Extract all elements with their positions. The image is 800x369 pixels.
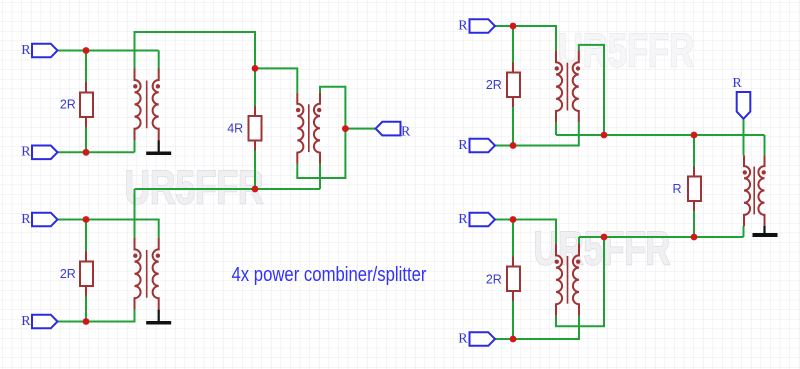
wire T1 left winding bottom rise bbox=[134, 140, 136, 152]
wire port5 to T4 left winding top bbox=[495, 26, 556, 50]
wire node A1 to T3 left winding top bbox=[255, 68, 297, 92]
wire top bus bbox=[556, 134, 765, 136]
wire R5 bottom to node bbox=[512, 301, 514, 339]
svg-text:R: R bbox=[732, 76, 742, 91]
transformer T6 bbox=[556, 244, 579, 316]
port P10 R bbox=[737, 92, 751, 119]
junction bbox=[83, 149, 90, 156]
svg-text:R: R bbox=[21, 145, 31, 160]
svg-text:R: R bbox=[458, 212, 468, 227]
svg-text:R: R bbox=[21, 212, 31, 227]
svg-text:R: R bbox=[401, 124, 411, 139]
junction bbox=[510, 23, 517, 30]
wire bottom bus to T5 left winding bottom bbox=[743, 226, 745, 237]
wire T4 left winding bottom drop bbox=[555, 122, 557, 135]
ground T5 bbox=[753, 226, 778, 237]
junction A1 bbox=[252, 65, 259, 72]
svg-text:2R: 2R bbox=[60, 98, 76, 112]
resistor R1 pins bbox=[85, 82, 87, 128]
transformer T1 bbox=[135, 69, 159, 141]
ground T2 bbox=[146, 310, 171, 325]
resistor R5 body 2R bbox=[507, 267, 520, 292]
resistor R2 pins bbox=[85, 251, 87, 297]
wire T1 right winding top drop bbox=[158, 51, 160, 69]
port P2 R bbox=[32, 146, 58, 160]
svg-text:2R: 2R bbox=[486, 78, 502, 92]
junction A2 bbox=[252, 186, 259, 193]
wire bottom bus to T6 right winding top bbox=[578, 237, 580, 244]
wire port8 to T6 right winding bottom bbox=[495, 316, 579, 339]
wire node C1 to T6 left winding bottom bbox=[556, 237, 604, 326]
wire port10 to T5 left winding top bbox=[743, 119, 745, 156]
resistor R5 pins bbox=[512, 257, 514, 302]
wire node to R2 top bbox=[85, 220, 87, 252]
port P8 R bbox=[470, 213, 496, 227]
wire R6 bottom to node bbox=[693, 211, 695, 237]
svg-text:2R: 2R bbox=[60, 267, 76, 281]
port P1 R bbox=[32, 44, 58, 58]
wire node J3 to output port bbox=[345, 128, 376, 130]
junction bbox=[83, 318, 90, 325]
wire port4 to T2 left winding bottom bbox=[58, 310, 135, 322]
resistor R6 body R bbox=[688, 177, 701, 202]
svg-text:4R: 4R bbox=[227, 122, 243, 136]
transformer T5 bbox=[744, 155, 765, 226]
svg-text:UR5FFR: UR5FFR bbox=[534, 222, 671, 275]
svg-text:R: R bbox=[458, 18, 468, 33]
wire R1 bottom to node bbox=[85, 128, 87, 153]
wire port6 to T4 right winding bottom bbox=[495, 122, 579, 145]
svg-text:R: R bbox=[21, 314, 31, 329]
transformer T2 bbox=[135, 238, 159, 310]
resistor R6 pins bbox=[693, 167, 695, 212]
wire node J3 to T3 left winding bottom bbox=[297, 129, 345, 178]
junction bbox=[83, 216, 90, 223]
transformer T3 bbox=[297, 93, 320, 164]
wire port3 to T2 right winding top bbox=[58, 220, 159, 239]
junction bbox=[83, 47, 90, 54]
wire node A2 horizontal bbox=[135, 188, 321, 190]
resistor R4 pins bbox=[512, 63, 514, 108]
wire port2 to T1 left winding bottom bbox=[58, 151, 135, 153]
svg-text:R: R bbox=[458, 331, 468, 346]
wire T4 right winding top to node B1 bbox=[579, 45, 604, 135]
junction C2 bbox=[691, 234, 698, 241]
port P7 R bbox=[470, 139, 496, 153]
port P6 R bbox=[470, 19, 496, 33]
wire port7 to T6 left winding top bbox=[495, 220, 556, 245]
resistor R4 body 2R bbox=[507, 73, 520, 98]
resistor R1 body 2R bbox=[80, 93, 93, 118]
port P3 R bbox=[32, 213, 58, 227]
wire A2 branch to T3 right winding bottom bbox=[319, 164, 321, 189]
resistor R2 body 2R bbox=[80, 262, 93, 287]
wire T1 left winding top to node A1 bbox=[135, 32, 256, 69]
ground T1 bbox=[146, 140, 171, 155]
wire bottom bus bbox=[579, 236, 744, 238]
junction bbox=[510, 216, 517, 223]
resistor R3 pins bbox=[254, 106, 256, 151]
wire A2 to T2 left winding top bbox=[134, 189, 136, 238]
svg-text:R: R bbox=[672, 182, 681, 196]
wire R4 bottom to node bbox=[512, 107, 514, 146]
svg-text:2R: 2R bbox=[486, 272, 502, 286]
wire R2 bottom to node bbox=[85, 297, 87, 322]
wire T3 right winding top to node J3 bbox=[320, 87, 345, 129]
wire top bus to T5 right winding top bbox=[764, 135, 766, 155]
wire R3 bottom to node A2 bbox=[254, 151, 256, 190]
junction bbox=[510, 336, 517, 343]
junction B1 bbox=[601, 132, 608, 139]
transformer T4 bbox=[556, 50, 579, 122]
junction C1 bbox=[601, 234, 608, 241]
port P4 R bbox=[32, 315, 58, 329]
svg-text:4x power combiner/splitter: 4x power combiner/splitter bbox=[232, 264, 427, 286]
wire node to R5 top bbox=[512, 220, 514, 257]
port P9 R bbox=[470, 332, 496, 346]
wire node A1 to R3 top bbox=[254, 68, 256, 106]
wire port1 to T1 right winding top column bbox=[58, 50, 159, 52]
svg-text:UR5FFR: UR5FFR bbox=[125, 161, 264, 214]
port P5 R output bbox=[376, 122, 401, 136]
wire node to R4 top bbox=[512, 26, 514, 63]
svg-text:R: R bbox=[458, 138, 468, 153]
svg-text:R: R bbox=[21, 43, 31, 58]
resistor R3 body 4R bbox=[249, 116, 262, 141]
wire node B2 to R6 top bbox=[693, 135, 695, 167]
junction bbox=[510, 142, 517, 149]
wire node to R1 top bbox=[85, 51, 87, 83]
junction J3 bbox=[342, 125, 349, 132]
junction B2 bbox=[691, 132, 698, 139]
